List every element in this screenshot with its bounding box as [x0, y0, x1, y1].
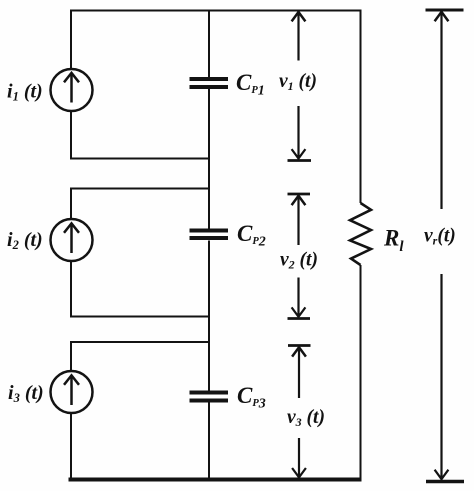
wire loop3 top — [70, 341, 210, 343]
wire left branch loop2 lower — [70, 261, 72, 318]
wire left branch loop3 lower — [70, 413, 72, 480]
capacitor CP2 — [190, 231, 229, 239]
svg-text:i3 (t): i3 (t) — [8, 382, 44, 405]
voltage arrow v1 — [288, 12, 312, 161]
svg-text:vr(t): vr(t) — [424, 226, 456, 248]
svg-text:i1 (t): i1 (t) — [7, 81, 43, 104]
wire left branch loop1 upper — [70, 10, 72, 69]
svg-text:CP3: CP3 — [237, 383, 266, 412]
current source I1 — [51, 69, 93, 111]
svg-text:CP1: CP1 — [236, 70, 265, 99]
wire loop2 bottom — [70, 316, 210, 318]
svg-text:Rl: Rl — [383, 226, 404, 256]
wire bottom rail — [69, 478, 362, 482]
wire middle column segment 2 — [208, 89, 210, 229]
voltage arrow v3 — [288, 346, 311, 478]
wire right rail lower — [360, 265, 362, 480]
svg-text:CP2: CP2 — [237, 221, 266, 250]
resistor Rl — [350, 203, 371, 265]
wire left branch loop3 upper — [70, 342, 72, 372]
wire loop2 top — [70, 188, 210, 190]
svg-text:v2 (t): v2 (t) — [280, 250, 318, 272]
wire middle column segment 1 — [208, 10, 210, 78]
wire top rail — [70, 10, 362, 12]
wire loop1 bottom — [70, 158, 210, 160]
wire left branch loop2 upper — [70, 189, 72, 220]
wire middle column segment 4 — [208, 403, 210, 480]
current source I2 — [51, 219, 93, 261]
svg-text:i2 (t): i2 (t) — [7, 229, 43, 252]
voltage arrow v2 — [288, 194, 311, 319]
wire middle column segment 3 — [208, 241, 210, 391]
capacitor CP3 — [190, 393, 229, 401]
capacitor CP1 — [190, 79, 229, 87]
svg-text:v3 (t): v3 (t) — [287, 407, 325, 429]
wire right rail upper — [360, 10, 362, 204]
svg-text:v1 (t): v1 (t) — [279, 71, 317, 93]
current source I3 — [51, 371, 93, 413]
voltage arrow vr — [426, 10, 465, 482]
wire left branch loop1 lower — [70, 111, 72, 160]
